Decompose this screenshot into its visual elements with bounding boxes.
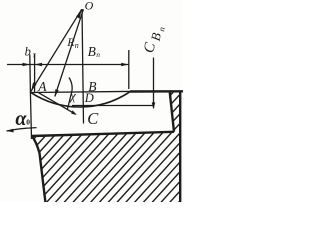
svg-text:A: A [37,79,47,94]
svg-text:D: D [84,91,94,105]
svg-text:O: O [85,0,94,13]
svg-text:n: n [156,26,167,32]
svg-text:b: b [25,45,31,59]
svg-text:τ: τ [33,50,37,60]
svg-text:B: B [88,44,96,59]
svg-text:C: C [87,109,99,128]
svg-text:0: 0 [26,118,30,127]
svg-text:n: n [75,41,79,50]
svg-text:χ: χ [69,89,76,103]
svg-text:C: C [141,40,159,54]
svg-text:B: B [148,31,164,42]
svg-text:n: n [96,50,100,59]
